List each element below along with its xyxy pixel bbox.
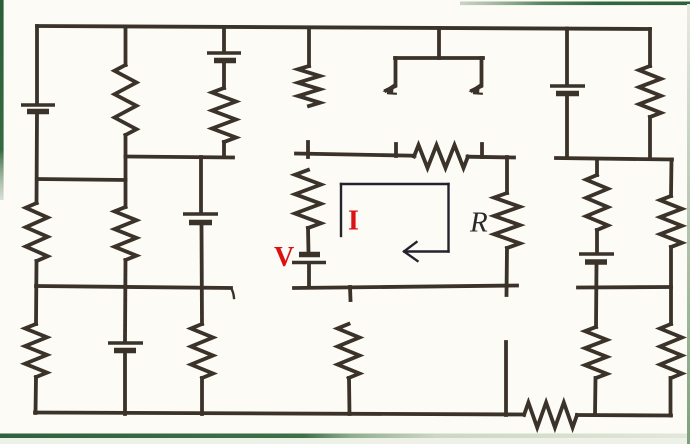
wire branch x671 R15 to bottom bus [669, 378, 673, 416]
wire branch x201 R5 to bottom bus [200, 378, 204, 414]
battery V7 long plate [579, 252, 614, 255]
loop indicator left segment [340, 184, 342, 236]
resistor R7 [298, 66, 320, 106]
battery V2 short plate [214, 58, 236, 63]
wire node stub x396 above loop [394, 144, 398, 156]
wire branch x37 battery V1 to resistor R1 [35, 114, 39, 203]
battery V5 short plate (V source) [299, 252, 320, 257]
wire branch x201 battery V3 to R5 [200, 225, 204, 324]
wire branch x597 R12 to bottom bus [593, 378, 597, 415]
wire branch x650 R13 to bus y158 [648, 117, 652, 159]
wire branch x309 top to R7 [307, 28, 311, 67]
resistor R16 on loop top wire [414, 145, 468, 168]
loop indicator arrowhead barb upper [404, 242, 417, 252]
wire branch x224 top to battery V2 [222, 28, 226, 52]
wire branch x125 R3 to R4 [124, 135, 128, 207]
resistor R5 [191, 324, 213, 378]
battery V7 short plate [585, 259, 607, 264]
wire branch x597 battery V7 through y287 node to R12 [594, 264, 598, 327]
resistor R11 [586, 175, 608, 230]
battery V5 long plate (V source) [292, 261, 326, 264]
wire inner loop top right of R16 [468, 155, 515, 160]
wire branch x567 battery V6 to bus y158 [565, 96, 569, 158]
battery V4 short plate [114, 348, 136, 353]
wire inner loop right, R9 to bottom with overshoot [505, 248, 509, 295]
wire node tick below loop x350 [348, 287, 352, 300]
loop indicator top segment [341, 183, 449, 185]
resistor R6 [212, 88, 236, 142]
resistor R1 [26, 203, 48, 261]
wire node stub x482 above loop [480, 144, 484, 157]
wire terminal element drop from top bus [437, 28, 441, 58]
resistor R2 [25, 324, 47, 377]
loop indicator arrowhead barb lower [404, 252, 418, 262]
wire branch x224 R6 to node [222, 142, 226, 157]
wire inner loop top left of R16 [296, 154, 415, 156]
wire branch x125 R4 to battery V4 [123, 260, 127, 341]
battery V6 long plate [550, 84, 585, 87]
wire top bus [37, 26, 650, 29]
wire branch x650 top to R13 [648, 29, 652, 66]
wire inner loop left, battery V5 to bottom [307, 264, 311, 287]
wire stub x506 to bottom bus [504, 342, 508, 415]
wire branch x567 top to battery V6 [565, 29, 569, 85]
wire branch x37 R1 to R2 [34, 261, 38, 324]
resistor R10 [338, 324, 360, 378]
wire terminal left leg [386, 58, 396, 91]
battery V3 long plate [183, 212, 218, 215]
resistor R8 in loop [295, 170, 321, 228]
resistor R15 [660, 324, 682, 378]
wire inner loop right, top to R9 [505, 157, 509, 193]
resistor R3 [115, 65, 137, 135]
battery V1 long plate [21, 103, 55, 106]
terminal arrowhead right [469, 84, 481, 94]
wire terminal element crossbar [395, 56, 483, 60]
wire branch x671 bus corner to R14 [669, 160, 673, 197]
wire branch x125 top to R3 [124, 27, 128, 65]
loop indicator bottom segment [405, 250, 449, 252]
resistor R17 on bottom bus [524, 403, 577, 428]
battery V2 long plate [207, 51, 241, 54]
resistor R14 [660, 196, 682, 247]
resistor R4 [115, 207, 137, 260]
wire branch x37 R2 to bottom bus [34, 377, 38, 413]
wire terminal right leg [472, 58, 482, 91]
battery V3 short plate [189, 220, 212, 225]
svg-text:V: V [274, 242, 294, 273]
wire mid-left bus y157 [126, 157, 234, 158]
wire inner loop bottom [294, 286, 517, 289]
wire left bus y287 [36, 286, 231, 288]
resistor R12 [585, 327, 607, 378]
wire branch x37 top to battery V1 [35, 26, 39, 103]
wire branch x224 battery V2 to R6 [222, 63, 226, 88]
svg-text:R: R [469, 207, 488, 239]
wire branch x125 battery V4 to bottom bus [123, 353, 127, 414]
resistor R13 [639, 66, 661, 117]
svg-text:I: I [348, 206, 359, 237]
wire branch x671 R14 to y287 node [669, 247, 673, 324]
battery V6 short plate [556, 91, 579, 96]
wire branch x201 node to battery V3 [199, 157, 203, 212]
wire hook at end of y287 bus [231, 288, 234, 298]
wire bottom bus right of R16 [577, 413, 671, 417]
wire branch x348 R10 to bottom bus [347, 378, 351, 414]
terminal arrowhead left [383, 84, 395, 94]
wire left bus y179 [37, 179, 126, 180]
loop indicator right segment [447, 184, 449, 252]
resistor R9 labelled R [494, 193, 520, 248]
wire right bus y287 [578, 285, 671, 289]
wire inner loop left, R8 to battery V5 [306, 228, 310, 252]
battery V1 short plate [27, 109, 49, 114]
terminal arrowhead left tail [387, 92, 397, 95]
wire branch x597 R11 to battery V7 [595, 230, 599, 252]
wire right bus y158 [556, 158, 672, 160]
terminal arrowhead right tail [473, 92, 483, 95]
battery V4 long plate [108, 341, 143, 344]
wire bottom bus left of R16 [35, 413, 524, 415]
wire branch x597 bus to R11 [595, 159, 599, 175]
wire stub above inner loop x308 [306, 142, 310, 157]
